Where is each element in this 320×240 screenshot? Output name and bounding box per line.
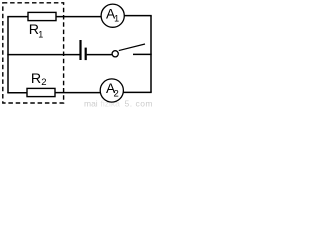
wire middle left (to battery) bbox=[7, 54, 79, 56]
label A1 bbox=[106, 7, 119, 24]
switch S pivot circle bbox=[112, 51, 118, 57]
label R1 bbox=[29, 22, 44, 40]
resistor R1 bbox=[28, 12, 56, 20]
battery cell long plate (+) bbox=[79, 40, 81, 60]
wire switch contact stub to right bus bbox=[133, 53, 152, 55]
ammeter A1 bbox=[101, 4, 124, 27]
svg-text:1: 1 bbox=[114, 14, 119, 24]
ammeter A2 bbox=[100, 79, 123, 102]
switch S lever arm (open) bbox=[119, 44, 145, 51]
svg-text:mai: mai bbox=[84, 99, 98, 109]
wire right bus bbox=[150, 16, 152, 93]
svg-text:5. com: 5. com bbox=[125, 99, 154, 109]
watermark bbox=[84, 99, 153, 109]
wire bottom left (to R2) bbox=[7, 92, 27, 94]
wire left bus bbox=[7, 17, 9, 93]
svg-text:2: 2 bbox=[41, 77, 46, 88]
wire top left (to R1) bbox=[7, 16, 28, 18]
svg-text:R: R bbox=[31, 71, 41, 87]
label A2 bbox=[106, 81, 119, 100]
svg-text:2: 2 bbox=[114, 89, 119, 100]
dashed box around R1 and R2 bbox=[3, 3, 64, 103]
svg-text:1: 1 bbox=[38, 29, 43, 39]
wire A2 to right bus bbox=[123, 91, 152, 93]
wire R1 to A1 bbox=[56, 16, 102, 18]
wire battery to switch bbox=[87, 54, 112, 56]
wire A1 to right bus bbox=[124, 15, 152, 17]
wire R2 to A2 bbox=[55, 92, 101, 94]
label R2 bbox=[31, 71, 47, 88]
resistor R2 bbox=[27, 88, 55, 96]
battery cell short plate (-) bbox=[85, 48, 87, 61]
